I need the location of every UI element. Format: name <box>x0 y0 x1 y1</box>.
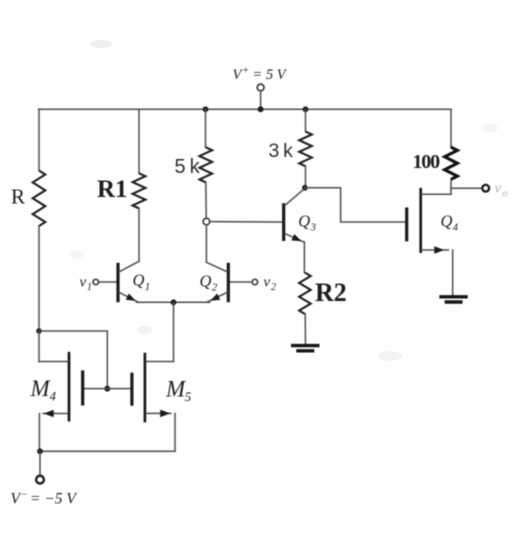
svg-text:R2: R2 <box>315 278 347 307</box>
label M5 <box>165 376 192 404</box>
svg-text:R1: R1 <box>97 176 128 203</box>
transistor Q3 npn <box>284 188 305 242</box>
svg-text:4: 4 <box>50 389 57 404</box>
resistor R1 <box>133 173 146 208</box>
transistor Q2 npn <box>206 262 228 302</box>
wire R1 bottom to Q1 collector <box>138 208 140 261</box>
wire 100 bottom to output node <box>450 179 452 194</box>
resistor 5 k <box>200 147 213 182</box>
resistor 3 k <box>299 132 312 167</box>
svg-text:3: 3 <box>310 223 316 234</box>
svg-text:5 k: 5 k <box>175 156 201 178</box>
resistor 100 <box>445 147 458 179</box>
transistor Q1 npn <box>118 261 139 302</box>
transistor Q4 nmos <box>407 188 453 296</box>
ground below Q4 <box>439 297 467 302</box>
node V- junction dot <box>37 448 43 454</box>
svg-text:−: − <box>21 490 28 501</box>
resistor R <box>33 171 46 226</box>
svg-text:2: 2 <box>212 282 218 294</box>
input terminal v1 <box>93 279 98 284</box>
wire node A down to M4 drain <box>38 331 40 362</box>
wire top positive supply rail <box>39 108 452 110</box>
wire emitter node down to M5 drain <box>173 302 175 361</box>
label Q4 <box>441 212 459 234</box>
wire output node to terminal vo <box>451 187 482 189</box>
wire 3k bottom to node C <box>305 166 307 186</box>
label Q2 <box>200 272 218 294</box>
node A junction dot <box>36 328 42 334</box>
node junction V+ rail <box>258 106 264 112</box>
wire rail to resistor 3k <box>305 109 307 131</box>
svg-text:Q: Q <box>298 212 310 231</box>
label V- = -5 V <box>11 490 78 508</box>
transistor M5 nmos <box>132 353 175 452</box>
svg-text:v: v <box>495 181 502 197</box>
wire node B to Q3 base <box>210 221 283 223</box>
wire R2 bottom to ground <box>304 314 306 344</box>
svg-text:Q: Q <box>133 271 145 290</box>
node junction 5k top <box>203 106 209 112</box>
svg-text:R: R <box>11 185 25 209</box>
svg-text:o: o <box>503 189 508 200</box>
node C junction dot Q3 collector <box>302 185 308 191</box>
wire bottom negative rail <box>40 450 175 452</box>
transistor M4 nmos <box>39 352 83 451</box>
svg-text:= 5 V: = 5 V <box>253 67 288 83</box>
power terminal V- = -5 V <box>36 476 44 484</box>
svg-text:+: + <box>242 66 249 77</box>
svg-text:= −5 V: = −5 V <box>30 491 77 508</box>
node junction 3k top <box>303 106 309 112</box>
node common emitters junction dot <box>171 299 177 305</box>
ground below R2 <box>291 346 320 351</box>
svg-text:M: M <box>30 376 52 401</box>
wire R bottom to node A <box>38 226 40 331</box>
svg-text:Q: Q <box>200 272 212 291</box>
svg-text:v: v <box>264 275 271 291</box>
output terminal vo <box>482 185 489 192</box>
svg-text:2: 2 <box>271 282 276 293</box>
wire v1 to Q1 base <box>99 281 117 283</box>
input terminal v2 <box>252 279 257 284</box>
wire node B down to Q2 collector <box>205 225 207 262</box>
svg-text:v: v <box>80 275 87 291</box>
svg-text:1: 1 <box>87 282 92 293</box>
wire rail to resistor 5k <box>205 109 207 147</box>
svg-text:4: 4 <box>453 223 459 234</box>
label Q3 <box>298 212 316 234</box>
label V+ = 5 V <box>233 66 288 83</box>
power terminal V+ = 5 V <box>257 84 264 109</box>
label v2 <box>264 275 277 294</box>
svg-text:1: 1 <box>145 281 151 293</box>
wire 5k bottom to node B <box>205 182 207 218</box>
wire node A to gates of M4 M5 <box>39 331 107 389</box>
wire rail to resistor R1 <box>138 109 140 173</box>
wire gate line M4 to M5 <box>84 388 130 390</box>
node B open terminal at 5k bottom <box>203 218 210 225</box>
svg-text:5: 5 <box>185 389 192 404</box>
wire Q3 emitter down to R2 <box>303 242 305 273</box>
label M4 <box>30 376 57 404</box>
label Q1 <box>133 271 151 294</box>
svg-text:M: M <box>165 376 187 401</box>
label vo <box>495 181 508 200</box>
label v1 <box>80 275 93 294</box>
svg-text:V: V <box>11 491 22 508</box>
wire common emitter rail <box>137 301 210 303</box>
wire rail to resistor R <box>38 109 40 170</box>
svg-text:3 k: 3 k <box>269 140 294 162</box>
svg-text:100: 100 <box>413 151 441 173</box>
wire Q3 collector node to Q4 gate <box>305 188 405 222</box>
wire rail corner to resistor 100 <box>450 109 452 147</box>
resistor R2 <box>299 273 311 314</box>
node gates junction dot <box>104 386 110 392</box>
svg-text:Q: Q <box>441 212 453 231</box>
wire V- stub <box>39 451 41 475</box>
wire Q2 base to v2 <box>230 281 253 283</box>
